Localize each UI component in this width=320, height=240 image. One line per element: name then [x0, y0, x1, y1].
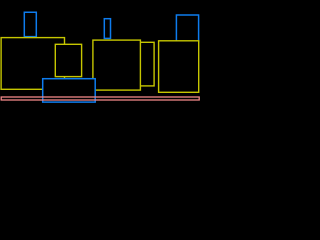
blue tower right (behind yellow building right)	[176, 15, 198, 42]
yellow building right	[159, 41, 199, 93]
yellow building center	[93, 40, 140, 90]
yellow building left	[1, 38, 64, 90]
blue tower center	[104, 19, 110, 39]
red band (road)	[1, 97, 199, 100]
yellow building behind (right of center)	[140, 42, 154, 86]
blue building bottom center	[43, 79, 95, 102]
blue tower left	[24, 12, 36, 36]
yellow building center-left small	[55, 44, 81, 76]
